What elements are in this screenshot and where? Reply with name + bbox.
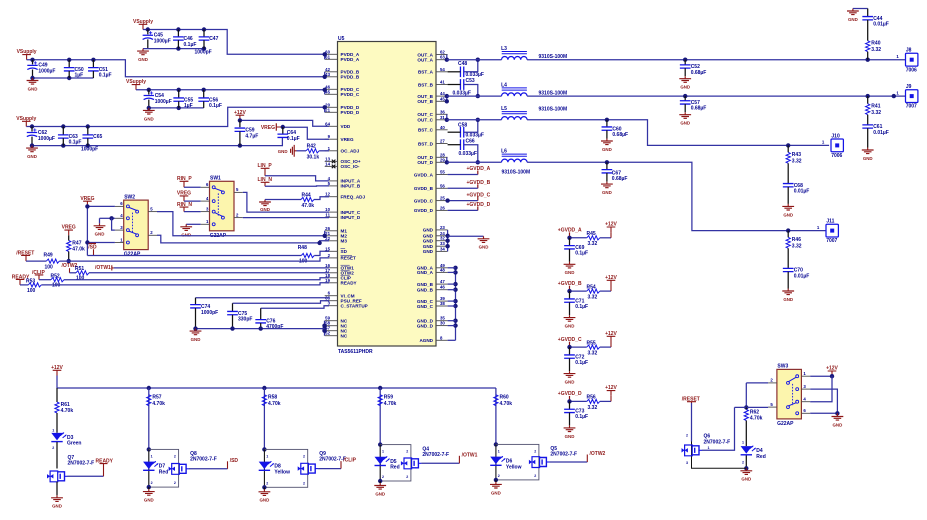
- junction dot M3 wire: [317, 241, 321, 245]
- svg-text:SD: SD: [341, 249, 348, 254]
- svg-text:2: 2: [382, 475, 384, 479]
- svg-text:OUT_D: OUT_D: [417, 160, 433, 165]
- svg-text:1: 1: [52, 429, 54, 433]
- svg-text:INPUT_B: INPUT_B: [341, 184, 361, 189]
- svg-text:R40: R40: [871, 41, 880, 47]
- ground (SW3): [832, 414, 844, 427]
- ground (C57): [679, 112, 691, 125]
- junction dot C66/OUT_D: [476, 160, 480, 164]
- capacitor C76: [255, 319, 283, 330]
- wire GND pins tie: [447, 230, 449, 252]
- capacitor C56: [198, 97, 222, 109]
- net label /SD: [88, 243, 97, 255]
- resistor R52: [51, 273, 65, 288]
- svg-text:M3: M3: [341, 239, 348, 244]
- svg-text:OUT_C: OUT_C: [417, 112, 433, 117]
- inductor L5: [501, 106, 567, 120]
- wire R43 to C68: [787, 163, 789, 183]
- svg-text:GND: GND: [144, 116, 154, 121]
- wire GND_A-D bus: [455, 268, 457, 341]
- svg-text:0.1µF: 0.1µF: [575, 304, 588, 310]
- wire C50 top lead: [68, 60, 70, 68]
- wire OUT_A to L3: [447, 59, 502, 61]
- svg-text:GND: GND: [783, 212, 793, 217]
- no-connect marks on OSC_IO pins: [332, 160, 336, 169]
- net label /RESET (Q6): [682, 397, 700, 403]
- wire C72 bottom lead: [569, 358, 571, 371]
- wire VREG to SW2 pin 6: [87, 205, 115, 207]
- svg-text:9310S-100M: 9310S-100M: [539, 106, 568, 112]
- junction dot C58/OUT_C: [476, 118, 480, 122]
- power flag VREG (to VREG pin): [261, 123, 283, 131]
- wire R56 to +12V: [600, 400, 611, 402]
- power flag VREG (R47): [62, 225, 76, 236]
- wire C52 bottom lead: [684, 68, 686, 76]
- svg-text:G22AP: G22AP: [124, 252, 141, 258]
- junction dot D7 block top: [147, 447, 151, 451]
- svg-text:1000µF: 1000µF: [154, 39, 171, 45]
- svg-text:R44: R44: [302, 192, 311, 198]
- net label /RESET: [16, 250, 34, 261]
- svg-text:2: 2: [174, 481, 176, 485]
- svg-text:27: 27: [440, 139, 445, 144]
- svg-text:7007: 7007: [826, 238, 837, 244]
- junction dot C48/OUT_A: [476, 58, 480, 62]
- junction dot D8 block bottom: [262, 485, 266, 489]
- wire C63 bottom lead: [62, 138, 64, 145]
- resistor R59: [378, 395, 396, 407]
- svg-text:PVDD_D: PVDD_D: [341, 110, 360, 115]
- wire GND pin stub join: [448, 305, 456, 307]
- svg-text:/SD: /SD: [230, 458, 239, 464]
- wire C56 top lead: [203, 90, 205, 98]
- capacitor C70: [783, 268, 810, 280]
- svg-text:SW3: SW3: [777, 364, 788, 370]
- op-amp U5 TAS5611PHDR body: [338, 36, 437, 355]
- wire NC pins tie: [324, 321, 326, 336]
- ground (D6 block): [490, 482, 502, 495]
- wire R46 to C70: [787, 248, 789, 268]
- junction dot +GVDD_A: [567, 236, 571, 240]
- svg-text:VREG: VREG: [261, 125, 275, 131]
- net label +GVDD_A: [467, 166, 491, 174]
- ground (Q7): [51, 495, 63, 508]
- wire C45 top lead: [147, 30, 149, 35]
- net label /OTW1 (Q4): [459, 452, 477, 463]
- wire GND pin stub join: [448, 267, 456, 269]
- wire GND pin stub join: [448, 320, 456, 322]
- svg-text:Red: Red: [390, 465, 399, 471]
- svg-text:GND: GND: [783, 297, 793, 302]
- junction dot OUT_C: [445, 118, 449, 122]
- power flag VSupply (C54 group): [126, 79, 146, 90]
- svg-text:0.68µF: 0.68µF: [691, 70, 707, 76]
- wire GND pin stub join: [448, 325, 456, 327]
- svg-text:GVDD_A: GVDD_A: [414, 172, 434, 177]
- wire GVDD pin +GVDD_A: [448, 174, 478, 176]
- wire C63 top lead: [62, 127, 64, 135]
- capacitor C74: [190, 304, 218, 316]
- svg-text:C47: C47: [209, 36, 218, 42]
- svg-text:2: 2: [406, 475, 408, 479]
- capacitor C47: [199, 36, 219, 42]
- svg-text:GND_D: GND_D: [417, 323, 434, 328]
- capacitor C61: [862, 124, 889, 136]
- svg-text:R43: R43: [792, 152, 801, 158]
- wire rail to R58: [263, 388, 265, 449]
- capacitor C59: [235, 127, 259, 139]
- capacitor C54: [144, 91, 172, 104]
- inductor L3: [501, 46, 567, 60]
- svg-text:+GVDD_B: +GVDD_B: [467, 180, 491, 186]
- svg-text:2N7002-7-F: 2N7002-7-F: [422, 452, 449, 458]
- svg-text:L3: L3: [501, 46, 507, 52]
- svg-text:0.033µF: 0.033µF: [459, 151, 477, 157]
- svg-text:J11: J11: [826, 219, 834, 225]
- transistor Q6: [682, 445, 703, 456]
- svg-text:2: 2: [52, 446, 54, 450]
- wire GND pin stub join: [448, 289, 456, 291]
- svg-text:RESET: RESET: [341, 256, 357, 261]
- svg-text:GND: GND: [565, 324, 575, 329]
- svg-text:54: 54: [440, 67, 445, 72]
- box outline D6/Q5: [496, 444, 539, 480]
- capacitor C58 (BST_C): [458, 122, 484, 138]
- wire VREG to SW1 pin 4: [184, 200, 201, 202]
- svg-text:0.1µF: 0.1µF: [575, 414, 588, 420]
- svg-text:R51: R51: [75, 266, 84, 272]
- svg-text:64: 64: [325, 121, 330, 126]
- wire C55 bottom lead: [178, 101, 180, 108]
- svg-text:GND: GND: [565, 434, 575, 439]
- svg-text:GND: GND: [848, 17, 858, 22]
- svg-text:L5: L5: [501, 106, 507, 112]
- ground (C70): [782, 289, 794, 302]
- capacitor C62: [27, 128, 55, 141]
- LED D8: [259, 461, 290, 475]
- resistor R57: [147, 395, 165, 407]
- net label LIN_N: [258, 177, 273, 186]
- svg-text:100: 100: [76, 276, 85, 282]
- ground (C72): [564, 371, 576, 384]
- svg-text:GND: GND: [95, 232, 105, 237]
- wire VSupply rail to PVDD_C: [136, 89, 325, 91]
- wire R44 to FREQ_ADJ: [314, 197, 329, 200]
- capacitor C49: [27, 61, 55, 74]
- svg-text:/OTW1: /OTW1: [462, 452, 478, 458]
- svg-text:BST_C: BST_C: [418, 128, 434, 133]
- svg-text:Green: Green: [67, 441, 81, 447]
- capacitor C66 (BST_D): [459, 139, 477, 158]
- svg-text:OUT_C: OUT_C: [417, 118, 433, 123]
- ground (C73): [564, 425, 576, 438]
- svg-text:R62: R62: [750, 409, 759, 415]
- net label READY: [12, 274, 30, 285]
- resistor R41: [866, 104, 882, 116]
- wire OUT_C pin tie: [446, 114, 448, 120]
- connector J10: [822, 133, 844, 159]
- svg-text:GND_C: GND_C: [417, 304, 434, 309]
- switch SW3: [768, 364, 810, 427]
- wire LIN_P to INPUT_A: [265, 176, 329, 181]
- svg-text:1000pF: 1000pF: [195, 50, 212, 56]
- svg-text:R60: R60: [500, 395, 509, 401]
- wire C54 to GND bus: [148, 100, 150, 108]
- wire VREG down to SW2 pin 1: [87, 206, 115, 242]
- svg-text:R48: R48: [298, 245, 307, 251]
- wire C54 top lead: [148, 90, 150, 95]
- svg-text:R47: R47: [72, 240, 81, 246]
- wire D7 block to GND: [148, 487, 150, 489]
- wire SW2 pole 2 to M3: [157, 235, 329, 243]
- wire C74 top lead: [195, 298, 197, 305]
- net label /OTW1: [95, 265, 114, 271]
- svg-text:R55: R55: [587, 340, 596, 346]
- svg-text:2: 2: [534, 474, 536, 478]
- capacitor C63: [58, 134, 82, 146]
- wire R43 top lead: [787, 145, 789, 152]
- svg-text:Yellow: Yellow: [274, 469, 290, 475]
- svg-text:L4: L4: [501, 83, 507, 89]
- wire C67 bottom lead: [606, 173, 608, 182]
- junction dot D6 block bottom: [494, 478, 498, 482]
- junction dots C49 group bottom: [30, 76, 71, 80]
- svg-text:26: 26: [440, 205, 445, 210]
- svg-text:2: 2: [266, 481, 268, 485]
- net label /CLIP: [32, 270, 45, 280]
- svg-text:9310S-100M: 9310S-100M: [502, 169, 531, 175]
- wire C49 group ground bus: [33, 77, 94, 79]
- capacitor C69: [564, 245, 588, 257]
- wire D6 block to GND: [495, 480, 497, 482]
- wire GND to C44: [853, 8, 868, 10]
- ground (C49 group): [27, 78, 39, 91]
- junction dots GND_A-D bus: [453, 266, 457, 328]
- ground (C67): [601, 182, 613, 195]
- resistor R44: [301, 192, 314, 209]
- svg-text:48: 48: [440, 267, 445, 272]
- svg-text:GVDD_C: GVDD_C: [414, 198, 434, 203]
- wire C62 top lead: [31, 127, 33, 132]
- junction dots startup caps: [193, 326, 263, 330]
- wire D5 anode/cathode: [379, 445, 381, 481]
- wire C70 bottom lead: [787, 272, 789, 289]
- wire SW3 pin 2 wire: [746, 382, 768, 384]
- net label +GVDD_B: [467, 180, 491, 188]
- wire PVDD_D pin tie: [324, 107, 326, 112]
- svg-text:C_STARTUP: C_STARTUP: [341, 304, 368, 309]
- svg-text:PVDD_A: PVDD_A: [341, 57, 360, 62]
- svg-text:0.01µF: 0.01µF: [794, 273, 810, 279]
- connector J9: [896, 84, 918, 110]
- power flag VSupply (C49 group): [17, 49, 37, 60]
- power flag +12V (SW3): [826, 366, 838, 377]
- junction dots C49 group rail: [30, 58, 327, 79]
- junction dot M2: [323, 234, 327, 238]
- wire D8 anode/cathode: [263, 449, 265, 487]
- svg-text:1000µF: 1000µF: [155, 99, 172, 105]
- wire Q7 source to GND: [56, 482, 58, 496]
- wire AGND to bus: [448, 339, 456, 341]
- svg-text:R56: R56: [587, 395, 596, 401]
- svg-text:GND_B: GND_B: [417, 282, 434, 287]
- capacitor C72: [564, 354, 588, 366]
- wire C44 top lead: [867, 9, 869, 17]
- svg-text:45: 45: [440, 96, 445, 101]
- svg-text:READY: READY: [341, 281, 357, 286]
- net label /OTW2: [62, 263, 78, 273]
- wire C72 top lead: [569, 347, 571, 355]
- capacitor C46: [173, 36, 196, 48]
- wire SW3 to GND: [836, 413, 838, 415]
- wire R61 to D3: [56, 413, 58, 433]
- wire SW1 pole 5 to INPUT_C: [243, 192, 329, 212]
- svg-text:12: 12: [325, 192, 330, 197]
- net label LIN_P: [258, 163, 273, 176]
- ground (C60): [601, 139, 613, 152]
- svg-text:2: 2: [303, 454, 305, 458]
- wire GVDD pin +GVDD_D: [448, 209, 478, 211]
- svg-text:FREQ_ADJ: FREQ_ADJ: [341, 195, 366, 200]
- svg-text:G22AP: G22AP: [777, 421, 794, 427]
- wire GND to R42: [297, 150, 307, 152]
- svg-text:0.01µF: 0.01µF: [873, 22, 889, 28]
- svg-text:OSC_IO-: OSC_IO-: [341, 164, 360, 169]
- LED D7: [143, 461, 168, 475]
- net label +GVDD_D (bypass): [558, 391, 582, 401]
- junction dots C62 group rail: [30, 105, 327, 129]
- wire C73 top lead: [569, 401, 571, 409]
- svg-text:47.0k: 47.0k: [72, 247, 85, 253]
- svg-text:GND: GND: [423, 228, 434, 233]
- wire OUT_B to L4: [447, 95, 502, 97]
- svg-text:36: 36: [440, 109, 445, 114]
- wire C56 bottom lead: [203, 101, 205, 108]
- ground (startup caps): [190, 329, 202, 342]
- svg-text:GND: GND: [741, 477, 751, 482]
- ground (FREQ_ADJ): [259, 200, 271, 212]
- wire C60 top lead: [606, 120, 608, 127]
- svg-text:2: 2: [406, 450, 408, 454]
- svg-text:1: 1: [498, 449, 500, 453]
- LED D3: [51, 433, 81, 447]
- wire C65 top lead: [87, 127, 89, 135]
- wire GND riser (SW2): [99, 218, 101, 223]
- junction dots C45 group rail: [146, 27, 327, 56]
- power flag +12V (LED rail): [51, 365, 63, 376]
- junction dots C54 group rail: [147, 88, 327, 92]
- ground (OC_ADJ side flag): [278, 145, 297, 157]
- svg-text:GVDD_D: GVDD_D: [414, 208, 434, 213]
- wire R45 to +12V: [600, 237, 611, 239]
- wire C73 bottom lead: [569, 413, 571, 426]
- wire PVDD_A pin tie: [324, 54, 326, 59]
- capacitor C53 (BST_B): [453, 78, 475, 97]
- svg-text:2: 2: [151, 481, 153, 485]
- ground (C69): [564, 262, 576, 275]
- net label +GVDD_C (bypass): [558, 337, 582, 347]
- svg-text:GND_A: GND_A: [417, 270, 434, 275]
- capacitor C67: [602, 170, 628, 182]
- box outline D5/Q4: [380, 445, 411, 481]
- svg-text:GND: GND: [423, 249, 434, 254]
- junction dots OUT_D net: [605, 160, 791, 233]
- svg-text:/OTW2: /OTW2: [590, 451, 606, 457]
- svg-text:R53: R53: [26, 278, 35, 284]
- svg-text:38: 38: [440, 301, 445, 306]
- wire C47 top lead: [203, 30, 205, 37]
- wire R42 to OC_ADJ pin: [319, 150, 329, 152]
- wire SW3 pin 3 to pin 6: [810, 389, 837, 413]
- wire GND to SW1 pin 1: [186, 223, 201, 225]
- svg-text:2: 2: [498, 474, 500, 478]
- IC U5 right pin stubs, numbers and names: [414, 50, 448, 344]
- power flag VSupply (C45 group): [133, 19, 153, 30]
- svg-text:0.68µF: 0.68µF: [612, 132, 628, 138]
- svg-text:GND: GND: [375, 491, 385, 496]
- wire GND pin stub join: [448, 300, 456, 302]
- svg-text:3.32: 3.32: [871, 47, 881, 53]
- svg-text:14: 14: [325, 161, 330, 166]
- wire C67 top lead: [606, 162, 608, 169]
- transistor Q8: [169, 464, 190, 475]
- wire R41 top lead: [867, 96, 869, 104]
- wire +GVDD_C to R55: [570, 346, 587, 348]
- svg-text:55: 55: [440, 170, 445, 175]
- ground (C71): [564, 315, 576, 328]
- wire C71 top lead: [569, 291, 571, 299]
- wire OUT_D to L6: [447, 161, 502, 163]
- wire C75 top lead: [232, 303, 234, 311]
- svg-text:PVDD_B: PVDD_B: [341, 75, 360, 80]
- junction dot D6 block top: [494, 442, 498, 446]
- svg-text:R42: R42: [307, 144, 316, 150]
- wire R47 to RESET net: [68, 252, 70, 262]
- capacitor C68: [783, 183, 810, 195]
- wire L3 output to J8: [527, 59, 905, 61]
- wire OUT_D pin tie: [446, 157, 448, 162]
- junction dot VREG node: [281, 125, 285, 129]
- wire C53 to OUT_B: [464, 85, 478, 97]
- wire C45 to GND bus: [147, 39, 149, 48]
- svg-text:BST_D: BST_D: [418, 141, 434, 146]
- svg-text:R58: R58: [268, 395, 277, 401]
- svg-text:7007: 7007: [906, 104, 917, 110]
- svg-text:OC_ADJ: OC_ADJ: [341, 149, 360, 154]
- svg-text:C58: C58: [458, 122, 467, 128]
- wire /CLIP to R52: [39, 279, 51, 281]
- svg-text:R46: R46: [792, 237, 801, 243]
- svg-text:GND: GND: [138, 57, 148, 62]
- wire C59 top lead: [239, 120, 241, 127]
- svg-text:3.32: 3.32: [588, 405, 598, 411]
- wire VSupply rail to PVDD_B: [27, 60, 325, 77]
- resistor R54: [587, 284, 600, 300]
- wire +12V to VDD pin: [240, 120, 329, 126]
- svg-text:/CLIP: /CLIP: [343, 458, 356, 464]
- svg-text:47.0k: 47.0k: [302, 203, 315, 209]
- svg-text:GND: GND: [52, 504, 62, 509]
- wire +GVDD_B to R54: [570, 290, 587, 292]
- svg-text:2N7002-7-F: 2N7002-7-F: [704, 439, 731, 445]
- junction dot GVDD_C pin: [445, 198, 449, 202]
- wire C75 to PSU_REF: [233, 301, 330, 304]
- resistor R58: [262, 395, 280, 407]
- svg-text:31: 31: [440, 115, 445, 120]
- wire /RESET to Q6 drain: [691, 403, 693, 442]
- svg-text:25: 25: [440, 196, 445, 201]
- switch SW2: [115, 194, 157, 257]
